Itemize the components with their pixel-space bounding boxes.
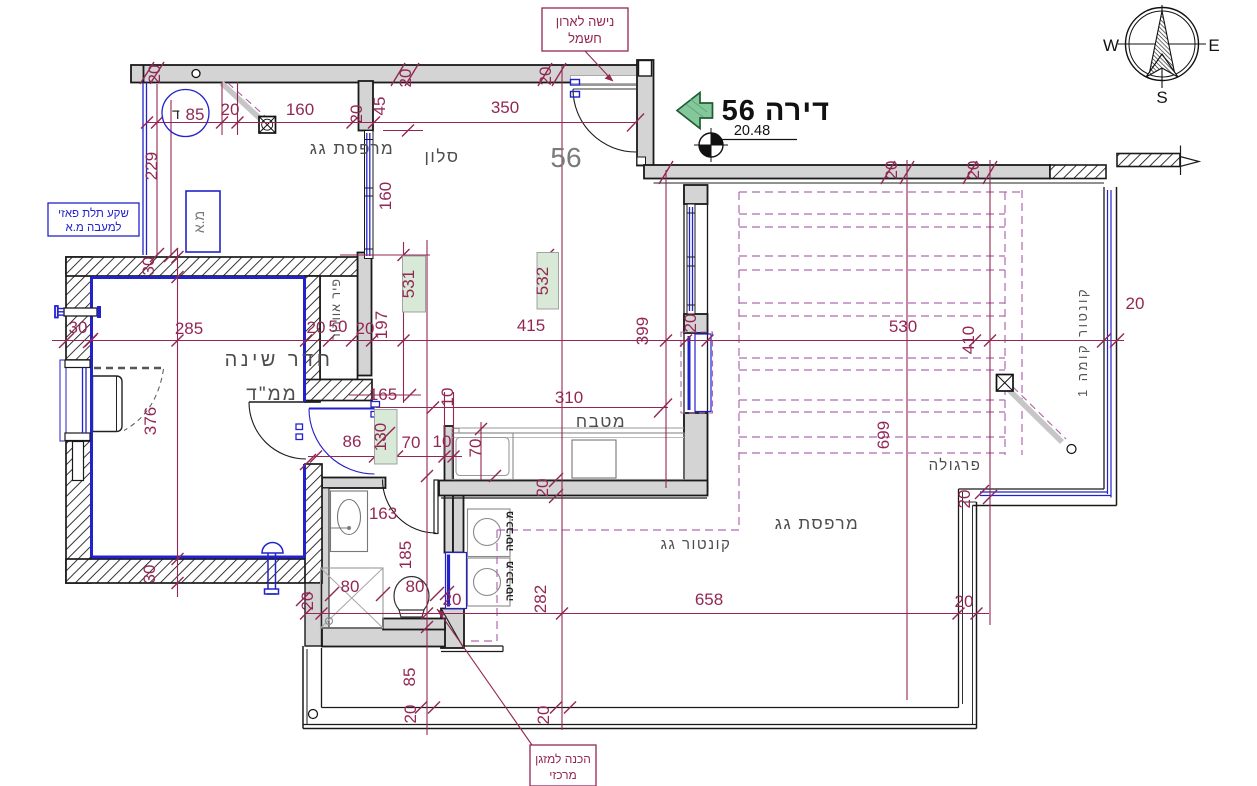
svg-text:30: 30 xyxy=(139,257,158,276)
svg-text:85: 85 xyxy=(400,668,419,687)
ticks on y=255 xyxy=(398,249,410,261)
ticks mamad west (30) xyxy=(83,333,98,348)
svg-text:310: 310 xyxy=(555,388,583,407)
green tags xyxy=(371,253,559,465)
svg-text:20: 20 xyxy=(396,69,415,88)
pergola strut bottom-right xyxy=(997,375,1077,454)
east salon wall window xyxy=(687,204,695,314)
conduit lines top-left xyxy=(142,83,144,256)
ticks east salon wall 20 (y=340.5 covered) and bath 20 xyxy=(296,592,310,606)
svg-text:70: 70 xyxy=(466,439,485,458)
salon west window xyxy=(365,131,374,259)
svg-text:20: 20 xyxy=(533,479,552,498)
ticks kitchen depth xyxy=(475,423,487,435)
svg-text:פרגולה: פרגולה xyxy=(929,457,982,474)
svg-text:30: 30 xyxy=(69,318,88,337)
bedroom west window frame boxes xyxy=(65,360,90,368)
svg-text:ממ"ד: ממ"ד xyxy=(246,384,297,405)
washing machine 1 xyxy=(468,509,511,557)
wall: band B (north wall of roof balcony) xyxy=(644,165,1050,179)
leader line from niche label xyxy=(585,51,611,79)
white notch bottom-left of entrance wall xyxy=(637,157,646,165)
svg-text:מ.כביסה: מ.כביסה xyxy=(504,511,516,551)
svg-text:376: 376 xyxy=(141,407,160,435)
wall sleeve (pipe) top-left of mamad xyxy=(55,306,101,318)
ticks on y=456.5 xyxy=(310,451,322,463)
svg-text:הכנה למזגן: הכנה למזגן xyxy=(535,752,591,766)
svg-text:20: 20 xyxy=(536,67,555,86)
dim line 658 (y=613.5) xyxy=(306,613,989,615)
svg-text:חשמל: חשמל xyxy=(568,31,602,46)
svg-text:160: 160 xyxy=(376,182,395,210)
pergola balcony parapet blue lines xyxy=(980,190,1111,498)
ticks kitchen south wall 20 xyxy=(549,473,563,487)
shutter slot in west wall xyxy=(73,442,84,481)
svg-text:20: 20 xyxy=(534,706,553,725)
thin line under band B xyxy=(654,182,1105,184)
ventilation shaft box xyxy=(320,276,358,380)
shaft west gray strip xyxy=(358,253,372,376)
dim line 86/70 (y=456.5) xyxy=(308,456,462,458)
dim labels horizontal xyxy=(175,98,1145,611)
niche for electrical closet (white notch in band A) xyxy=(571,76,638,84)
svg-text:70: 70 xyxy=(402,433,421,452)
toilet xyxy=(394,577,429,618)
SEC:WALLS xyxy=(131,60,1199,652)
mem-alef unit box (blue) xyxy=(186,191,220,252)
svg-text:197: 197 xyxy=(372,311,391,339)
bedroom west window glass xyxy=(82,368,84,434)
svg-text:למעבה מ.א: למעבה מ.א xyxy=(65,221,121,234)
dim stub at tags (y=255) xyxy=(340,254,430,256)
dim labels rotated xyxy=(69,65,983,725)
dim line top (y=122.5) xyxy=(147,122,637,124)
ticks crossing band B xyxy=(881,161,895,184)
wall joint line at x=143 xyxy=(143,65,145,83)
svg-text:ד: ד xyxy=(172,106,180,122)
parapet circle bottom-left xyxy=(309,710,318,719)
wall between bathroom and laundry xyxy=(445,426,454,553)
compass rose xyxy=(1103,5,1220,107)
svg-text:W: W xyxy=(1103,36,1119,55)
SEC:BLUE xyxy=(55,80,1111,609)
entrance east wall xyxy=(637,60,654,166)
dim line 165 (y=395) xyxy=(349,394,421,396)
pergola outline dashed xyxy=(739,191,1022,193)
sliding door dashed box xyxy=(681,332,713,413)
svg-text:699: 699 xyxy=(874,421,893,449)
bathroom sink bowl xyxy=(338,500,361,535)
svg-text:חדר שינה: חדר שינה xyxy=(225,349,334,371)
svg-text:285: 285 xyxy=(175,319,203,338)
kitchen tap xyxy=(452,429,459,434)
ticks toilet/shower (80/80) xyxy=(325,587,339,601)
parapet right side lines xyxy=(958,489,960,708)
svg-text:530: 530 xyxy=(889,317,917,336)
balcony parapet: left outer double lines xyxy=(302,646,304,729)
mamad south wall xyxy=(66,559,306,583)
washing machine 2 xyxy=(468,558,511,606)
level symbol 20.48 xyxy=(694,123,797,162)
label box: three-phase socket (blue) xyxy=(48,203,139,236)
svg-text:מ.א: מ.א xyxy=(191,211,207,233)
svg-text:קונטור גג: קונטור גג xyxy=(661,536,732,553)
kitchen stove xyxy=(572,440,616,478)
ticks on y=340.5 xyxy=(59,333,74,348)
ticks on x=177.5 (376) xyxy=(172,251,184,263)
hatched section of band B xyxy=(1050,165,1106,179)
svg-text:30: 30 xyxy=(140,565,159,584)
svg-text:20: 20 xyxy=(221,100,240,119)
entrance door leaf (against band A) xyxy=(573,84,636,86)
tick parapet right 20 xyxy=(975,485,989,499)
svg-text:פיר אוורור: פיר אוורור xyxy=(329,278,343,340)
svg-text:658: 658 xyxy=(695,590,723,609)
partition hallway/bathroom xyxy=(322,478,386,489)
svg-text:399: 399 xyxy=(633,317,652,345)
svg-text:מרפסת גג: מרפסת גג xyxy=(310,139,394,158)
mamad west wall upper part xyxy=(66,257,91,360)
shower drain xyxy=(326,618,333,625)
main horizontal dim line (y=340.5) xyxy=(52,340,1124,342)
tick pair y=456.5 left end xyxy=(300,454,316,470)
svg-text:410: 410 xyxy=(959,326,978,354)
ticks on y=707.5 bottom xyxy=(415,702,427,714)
svg-text:160: 160 xyxy=(286,100,314,119)
svg-text:מרכזי: מרכזי xyxy=(549,768,577,782)
dart symbol at right end xyxy=(1180,157,1199,167)
svg-text:45: 45 xyxy=(370,97,389,116)
svg-text:531: 531 xyxy=(399,270,418,298)
circle tag 85 xyxy=(162,90,209,137)
svg-text:20: 20 xyxy=(401,705,420,724)
svg-text:85: 85 xyxy=(186,105,205,124)
bedroom west window outer sill xyxy=(60,360,66,441)
svg-text:229: 229 xyxy=(142,152,161,180)
pergola strut top-left balcony xyxy=(222,83,276,133)
svg-text:165: 165 xyxy=(369,385,397,404)
east salon wall bottom piece / kitchen east wall xyxy=(684,413,708,491)
dim line 310 (y=407.5) xyxy=(376,407,668,409)
bathroom vanity ledge xyxy=(383,619,445,630)
sliding door to pergola balcony: blue leaf xyxy=(688,336,691,410)
closet dashed projection xyxy=(94,367,164,370)
wall stub between roof terrace and salon xyxy=(359,81,374,131)
svg-text:20: 20 xyxy=(145,65,164,84)
laundry corner block xyxy=(441,609,464,649)
svg-text:80: 80 xyxy=(341,577,360,596)
apartment title arrow (green) xyxy=(677,93,713,129)
white notch top of entrance wall xyxy=(639,61,652,77)
svg-text:שקע תלת פאזי: שקע תלת פאזי xyxy=(58,207,129,220)
svg-text:185: 185 xyxy=(396,541,415,569)
leader line to AC label xyxy=(437,609,532,745)
parapet step horizontals at pergola corner xyxy=(959,488,1105,490)
svg-text:282: 282 xyxy=(531,585,550,613)
roof contour dashed xyxy=(497,529,739,531)
door: entrance arc xyxy=(573,89,636,152)
SEC:HATCH xyxy=(66,257,372,646)
laundry blue door xyxy=(446,553,467,609)
bathroom south wall xyxy=(322,628,445,647)
tick on y=395 xyxy=(404,389,416,401)
ticks on y=122.5 xyxy=(141,117,153,129)
sink tap line xyxy=(329,527,349,529)
svg-text:415: 415 xyxy=(517,316,545,335)
svg-text:10: 10 xyxy=(433,432,452,451)
svg-text:20: 20 xyxy=(955,490,974,509)
svg-text:נישה לארון: נישה לארון xyxy=(556,14,615,29)
wall: top band A (north wall of upper section) xyxy=(131,65,648,83)
SEC:TEXT xyxy=(225,139,1090,601)
pergola beams dashed xyxy=(739,214,1005,453)
parapet bottom inner line xyxy=(322,707,959,709)
shower tray xyxy=(321,568,384,628)
vent circle on band A xyxy=(192,70,200,78)
SEC:DIMS xyxy=(52,66,1124,735)
ticks on y=407.5 xyxy=(427,402,439,414)
vertical dim lines xyxy=(156,84,158,256)
kitchen counter outline xyxy=(452,433,684,480)
svg-text:56: 56 xyxy=(550,142,581,173)
ticks on bathroom 185 line x=427 xyxy=(421,470,433,482)
pergola balcony east verticals xyxy=(1103,187,1105,489)
svg-text:163: 163 xyxy=(369,504,397,523)
laundry west strip xyxy=(453,482,464,553)
svg-text:350: 350 xyxy=(491,98,519,117)
mamad west wall lower part xyxy=(66,441,91,583)
bathroom west finish strip xyxy=(322,488,330,628)
SEC:PURPLE xyxy=(471,190,1022,641)
svg-text:20: 20 xyxy=(882,161,901,180)
kitchen left cabinet xyxy=(452,433,513,480)
svg-text:20: 20 xyxy=(964,161,983,180)
parapet bottom outer double lines xyxy=(303,724,977,726)
mamad north wall xyxy=(66,257,358,276)
SEC:FIXTURES xyxy=(321,428,685,628)
ticks crossing band A xyxy=(140,62,154,84)
bedroom closet xyxy=(93,368,164,432)
door: bathroom xyxy=(383,480,439,534)
svg-text:20: 20 xyxy=(955,592,974,611)
mamad blast door: leaf and arc xyxy=(309,402,380,475)
mamad east wall lower part xyxy=(305,464,322,583)
laundry south small lines xyxy=(464,645,503,647)
svg-text:קונטור קומה 1: קונטור קומה 1 xyxy=(1075,287,1090,397)
bathroom sink cabinet xyxy=(331,491,368,552)
entrance door hinge marks xyxy=(571,80,580,86)
svg-text:20.48: 20.48 xyxy=(734,123,770,139)
svg-text:80: 80 xyxy=(406,577,425,596)
kitchen counter back line xyxy=(452,427,684,429)
svg-text:20: 20 xyxy=(307,318,326,337)
label box: central AC prep xyxy=(530,745,596,786)
balcony floor line under kitchen wall xyxy=(441,497,707,499)
ticks on y=613.5 xyxy=(300,608,312,620)
dim line 45 sub (y=130.5) xyxy=(383,130,423,132)
bedroom inner blue boundary xyxy=(92,278,305,558)
wall below shaft xyxy=(305,380,372,401)
east salon wall mid piece xyxy=(684,314,708,333)
tick x=990 lower xyxy=(983,490,997,504)
svg-text:20: 20 xyxy=(1126,294,1145,313)
svg-text:מ.כביסה: מ.כביסה xyxy=(504,561,516,601)
svg-text:130: 130 xyxy=(371,423,390,451)
door: bedroom inner leaf xyxy=(249,402,306,459)
svg-text:S: S xyxy=(1156,88,1167,107)
svg-text:20: 20 xyxy=(347,105,366,124)
svg-text:סלון: סלון xyxy=(425,147,460,166)
upper hatched block at right end xyxy=(1117,154,1180,167)
label box: electrical niche xyxy=(542,8,628,51)
svg-text:מטבח: מטבח xyxy=(576,412,626,431)
parapet left inner line xyxy=(321,648,323,708)
svg-text:מרפסת גג: מרפסת גג xyxy=(775,514,859,533)
garden tap south of mamad xyxy=(262,543,283,595)
svg-text:532: 532 xyxy=(533,267,552,295)
svg-text:E: E xyxy=(1208,36,1219,55)
svg-text:86: 86 xyxy=(343,432,362,451)
mamad east wall upper part xyxy=(305,276,320,402)
svg-text:20: 20 xyxy=(443,590,462,609)
svg-text:20: 20 xyxy=(681,314,700,333)
svg-text:10: 10 xyxy=(438,388,457,407)
east salon wall top piece xyxy=(684,185,708,204)
kitchen south wall xyxy=(439,481,708,496)
svg-text:20: 20 xyxy=(298,592,317,611)
hinge marks on mamad wall left of hallway xyxy=(296,424,303,430)
ticks hatch top x=157/171 xyxy=(150,248,164,262)
